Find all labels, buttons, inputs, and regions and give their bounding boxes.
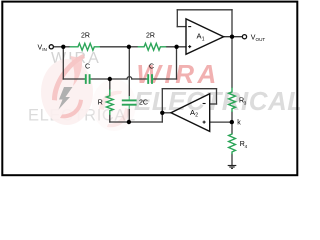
wire hop to cap C2	[132, 78, 147, 80]
node k junction	[230, 120, 234, 124]
wire node D to hop	[110, 78, 127, 80]
wire node A down to cap row	[62, 47, 64, 79]
wire A1 minus stub	[177, 26, 186, 28]
op-amp A2	[171, 94, 210, 132]
wire A2 feedback top	[162, 88, 216, 90]
wire R3 to node k	[231, 112, 233, 122]
resistor R3	[229, 88, 236, 113]
wire node B to resistor 2R2	[129, 46, 138, 48]
node C junction	[174, 45, 178, 49]
svg-text:3: 3	[244, 100, 247, 105]
svg-text:1: 1	[202, 36, 205, 42]
svg-text:2R: 2R	[81, 33, 90, 40]
wire A2 feedback down	[216, 89, 218, 104]
wire bottom rail	[110, 121, 163, 123]
svg-text:2R: 2R	[146, 33, 155, 40]
node B junction	[127, 45, 131, 49]
wire A1 feedback down to output	[231, 10, 233, 37]
node E junction A2 output	[160, 111, 164, 115]
wire 2R2 to node C and A1 plus input	[166, 46, 186, 48]
wire A2 feedback up	[161, 89, 163, 113]
wire 2R1 to node B	[100, 46, 129, 48]
svg-text:C: C	[85, 64, 90, 71]
node D junction	[108, 77, 112, 81]
capacitor C2 leads	[146, 78, 147, 80]
wire node A to resistor 2R left	[63, 46, 69, 48]
wire R bottom to rail	[109, 115, 111, 122]
svg-text:IN: IN	[42, 47, 47, 52]
wire Vin to node A	[53, 46, 63, 48]
wire A1 feedback up	[176, 10, 178, 27]
capacitor C1 plates	[85, 74, 87, 84]
ground	[228, 166, 237, 169]
svg-text:A: A	[197, 32, 202, 41]
wire A2 plus input to node k	[210, 121, 232, 123]
wire 2C bottom to rail	[128, 109, 130, 122]
wire rail up to node E	[161, 113, 163, 122]
wire corner up to node C	[176, 47, 178, 79]
resistor 2R first	[70, 43, 101, 50]
wire R4 to ground	[231, 154, 233, 165]
svg-text:C: C	[149, 64, 154, 71]
capacitor 2C plates	[122, 99, 137, 101]
wire node B down to 2C	[128, 47, 130, 96]
output terminal Vout	[242, 35, 246, 39]
resistor 2R second	[138, 43, 167, 50]
border frame	[2, 2, 297, 176]
wire hop over vertical	[127, 77, 132, 79]
capacitor 2C leads	[128, 96, 130, 100]
capacitor C1 leads	[84, 78, 85, 80]
svg-text:OUT: OUT	[256, 37, 266, 42]
resistor R	[106, 89, 113, 115]
wire cap C2 to right corner	[154, 78, 177, 80]
watermark logo 2 partial	[92, 79, 136, 131]
wire node D to resistor R	[109, 79, 111, 89]
wire cap C1 to node D	[91, 78, 109, 80]
svg-text:4: 4	[245, 144, 248, 149]
svg-text:A: A	[190, 108, 195, 117]
svg-text:R: R	[98, 100, 103, 107]
wire node E to A2 output apex	[162, 112, 171, 114]
svg-text:2: 2	[195, 113, 198, 119]
wire A2 feedback into minus input	[210, 103, 217, 105]
svg-text:2C: 2C	[139, 100, 148, 107]
resistor R4	[229, 133, 236, 154]
junction 2C bottom	[127, 120, 131, 124]
capacitor C2 plates	[147, 74, 149, 84]
wire output node down to R3	[231, 37, 233, 88]
input terminal Vin	[49, 45, 53, 49]
watermark logo 1	[41, 54, 93, 125]
node A junction	[61, 45, 65, 49]
wire node k to R4	[231, 122, 233, 133]
op-amp A1	[186, 19, 224, 54]
wire A1 apex to output node	[224, 36, 243, 38]
wire cap row left segment	[63, 78, 84, 80]
svg-text:k: k	[237, 120, 241, 127]
wire A1 feedback top	[177, 9, 232, 11]
output node junction	[230, 35, 234, 39]
